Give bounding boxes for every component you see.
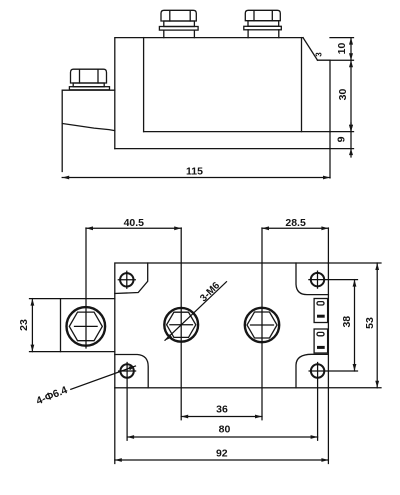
dim 115 dimension line — [62, 177, 330, 179]
corner pad top-left — [115, 263, 148, 294]
dim 10/30 dimension line — [350, 38, 352, 132]
corner pad bottom-right — [296, 354, 328, 388]
svg-text:38: 38 — [341, 316, 353, 328]
bolt B1 head facets — [170, 11, 190, 21]
left bolt washer — [73, 83, 104, 87]
arrow dim38 bottom — [353, 364, 357, 371]
arrow dim115 right — [323, 176, 330, 180]
svg-text:92: 92 — [216, 448, 228, 460]
break line under left block — [62, 124, 115, 131]
left terminal outer circle — [67, 307, 106, 346]
bolt B2 washer — [248, 21, 279, 27]
corner pad bottom-left — [115, 355, 148, 388]
svg-text:115: 115 — [186, 166, 203, 178]
arrow dim40.5 right — [174, 226, 181, 230]
terminal T1 centerline horizontal — [170, 324, 193, 326]
corner pad top-right — [296, 263, 328, 295]
svg-text:4-Φ6.4: 4-Φ6.4 — [35, 384, 70, 407]
svg-text:36: 36 — [216, 404, 228, 416]
mounting hole BR — [311, 364, 324, 377]
mounting hole BL — [120, 364, 133, 377]
terminal T2 outer circle — [245, 308, 279, 342]
gate terminal 1 slot — [317, 302, 324, 305]
arrow dim115 left — [62, 176, 69, 180]
dim 9 dimension line stubs — [350, 123, 352, 157]
arrow dim53 bottom — [375, 381, 379, 388]
arrow dim10 bottom — [349, 53, 353, 60]
arrow dim28.5 left — [262, 226, 269, 230]
arrow dim23 bottom — [31, 345, 35, 352]
left terminal hex — [69, 312, 102, 341]
arrow dim10 top — [349, 38, 353, 45]
arrow dim80 right — [311, 435, 318, 439]
leader 4-phi6.4 — [71, 366, 136, 389]
bolt B2 neck — [248, 30, 279, 38]
dim 40.5 / 28.5 dimension lines — [86, 227, 328, 229]
mounting hole TR crosshair — [309, 271, 358, 288]
arrow dim36 left — [181, 415, 188, 419]
terminal T2 centerline horizontal — [251, 324, 274, 326]
right edge extension up — [327, 228, 329, 263]
left terminal block (top view) — [61, 299, 115, 352]
arrow dim80 left — [127, 435, 134, 439]
left bolt hex head — [71, 69, 107, 83]
dim 53 extension lines — [328, 263, 381, 388]
arrow leader 3-M6 — [165, 334, 173, 341]
arrow dim92 right — [321, 458, 328, 462]
bolt B1 neck — [164, 30, 195, 37]
bolt B2 hex head — [245, 10, 280, 20]
arrow dim40.5 left — [86, 226, 93, 230]
dim 80 dimension line — [127, 436, 318, 438]
svg-text:53: 53 — [364, 317, 376, 329]
bolt B1 washer — [164, 21, 195, 27]
mounting hole TL crosshair — [118, 271, 135, 288]
dim 23 dimension line — [31, 299, 33, 352]
dim 23 extension lines — [30, 299, 61, 352]
body inner edge left flange — [143, 38, 145, 132]
left bolt head facets — [80, 70, 99, 84]
bolt B2 head facets — [254, 11, 272, 21]
body inner edge right chamfer face — [301, 38, 303, 132]
terminal T2 centerline vertical — [261, 228, 263, 420]
svg-text:40.5: 40.5 — [124, 217, 145, 229]
baseplate top edge — [144, 131, 354, 133]
arrow dim9 bottom outside — [349, 149, 353, 156]
dim 92 dimension line — [115, 459, 329, 461]
svg-text:23: 23 — [18, 319, 30, 331]
left terminal centerline horizontal — [75, 325, 98, 327]
terminal T1 outer circle — [164, 308, 198, 342]
left terminal centerline vertical — [85, 228, 87, 348]
svg-text:10: 10 — [336, 43, 348, 55]
arrow dim30 top — [349, 60, 353, 67]
housing outline rect — [115, 263, 329, 388]
mounting hole BR crosshair — [309, 363, 357, 441]
gate terminal 1 rect — [314, 299, 328, 323]
housing right edge extension down — [327, 388, 329, 464]
bolt B1 clamp plate — [159, 27, 198, 31]
baseplate bottom edge — [115, 148, 354, 150]
left bolt clamp plate — [69, 87, 109, 90]
arrow dim23 top — [31, 299, 35, 306]
bolt B1 hex head — [161, 10, 196, 21]
module body outline — [115, 38, 330, 149]
terminal T1 hex — [167, 312, 196, 337]
dim 53 dimension line — [376, 263, 378, 388]
mounting hole TR — [311, 273, 324, 286]
svg-text:3-M6: 3-M6 — [198, 280, 222, 304]
bolt B2 clamp plate — [244, 26, 281, 30]
mounting hole BL crosshair — [119, 363, 136, 441]
gate terminal 2 rect — [314, 329, 328, 353]
mounting hole TL — [120, 273, 133, 286]
arrow dim53 top — [375, 263, 379, 270]
terminal T1 centerline vertical — [180, 228, 182, 420]
arrow dim28.5 right — [321, 226, 328, 230]
svg-text:80: 80 — [219, 424, 231, 436]
arrow dim36 right — [255, 415, 262, 419]
arrow leader 4-phi6.4 — [129, 366, 137, 371]
leader 3-M6 — [165, 282, 227, 341]
dim 10 extension lines — [330, 38, 354, 61]
left terminal block (side view) — [62, 90, 115, 171]
gate terminal 2 contact bar — [317, 346, 325, 349]
gate terminal 1 contact bar — [317, 315, 325, 318]
svg-text:3: 3 — [315, 52, 324, 57]
arrow dim92 left — [115, 458, 122, 462]
arrow dim30 bottom — [349, 125, 353, 132]
svg-text:28.5: 28.5 — [285, 217, 306, 229]
arrow dim9 top outside — [349, 125, 353, 132]
dim 115 right extension — [329, 132, 331, 178]
arrow dim38 top — [353, 280, 357, 287]
body top-right chamfer — [303, 38, 318, 61]
housing left edge extension down — [114, 388, 116, 464]
gate terminal 2 slot — [317, 332, 324, 335]
terminal T2 hex — [247, 312, 277, 338]
TOP VIEW — [61, 263, 329, 388]
svg-text:30: 30 — [337, 89, 349, 101]
dim 38 dimension line — [354, 280, 356, 371]
dim 36 dimension line — [181, 416, 262, 418]
svg-text:9: 9 — [336, 136, 348, 142]
